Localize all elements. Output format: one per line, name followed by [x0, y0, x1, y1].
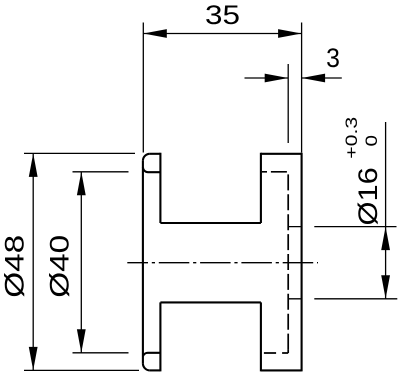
- svg-text:Ø40: Ø40: [45, 235, 75, 298]
- part outline: right flange right face: [301, 153, 303, 372]
- part outline: hub top edge: [160, 222, 261, 224]
- part edge: left flange rim tangent edge top (Ø40) with blend arc: [143, 167, 161, 172]
- part outline: left flange bottom edge: [150, 369, 161, 371]
- arrowhead: 3 left (pointing right): [265, 74, 289, 83]
- hidden hole edge + extension line: Ø16 bottom (gap after part face): [288, 298, 397, 300]
- svg-text:3: 3: [326, 43, 340, 73]
- extension line: Ø48 bottom: [24, 369, 139, 371]
- part outline: left flange left face: [142, 161, 144, 364]
- svg-text:Ø48: Ø48: [0, 235, 30, 298]
- arrowhead: Ø48 top: [29, 153, 38, 177]
- svg-text:+0.3: +0.3: [342, 117, 361, 159]
- arrowhead: 35 right: [278, 29, 302, 38]
- part outline: right flange top edge: [261, 153, 302, 155]
- part outline: left flange inner face lower segment: [159, 302, 161, 371]
- extension line: Ø40 bottom: [73, 352, 129, 354]
- svg-text:0: 0: [362, 135, 381, 147]
- hidden line: Ø40 recess bottom (dashed): [262, 352, 288, 354]
- arrowhead: Ø48 bottom: [29, 347, 38, 371]
- arrowhead: Ø16 bottom: [381, 275, 390, 299]
- extension line: Ø48 top: [24, 152, 135, 154]
- part outline: left flange bottom-left corner arc: [143, 363, 150, 370]
- dimension line: Ø48: [32, 153, 34, 370]
- part outline: hub bottom edge: [160, 301, 261, 303]
- part edge: left flange rim tangent edge bottom (Ø40) with blend arc: [143, 353, 161, 357]
- part outline: right flange inner face upper segment: [260, 153, 262, 223]
- part outline: right flange bottom edge: [261, 369, 302, 371]
- arrowhead: Ø40 bottom: [77, 329, 86, 353]
- part outline: left flange top-left corner arc: [143, 154, 150, 161]
- arrowhead: 35 left: [143, 29, 167, 38]
- part outline: left flange top edge: [150, 153, 161, 155]
- dimension line: 3 left segment: [245, 77, 289, 79]
- part outline: left flange inner face upper segment: [159, 153, 161, 223]
- svg-text:Ø16: Ø16: [353, 167, 383, 225]
- arrowhead: Ø16 top: [381, 227, 390, 251]
- extension line: 35 dim right / 3 dim right (part right face): [301, 23, 303, 153]
- dimension line: Ø16 (extended up for text): [385, 122, 387, 299]
- dimension line: 3 right segment: [302, 77, 342, 79]
- part outline: right flange inner face lower segment: [260, 302, 262, 371]
- arrowhead: Ø40 top: [77, 172, 86, 196]
- hidden line: recess bottom corner stub: [287, 350, 289, 353]
- hidden line: Ø40 recess in right flange (dashed): [262, 172, 288, 353]
- dimension line: 35: [143, 33, 301, 35]
- svg-text:35: 35: [205, 0, 240, 30]
- center line (dash-dot axis): [127, 262, 318, 264]
- arrowhead: 3 right (pointing left): [302, 74, 326, 83]
- extension line: 3 dim left (recess depth): [287, 64, 289, 143]
- hidden hole edge + extension line: Ø16 top (gap after part face): [288, 226, 396, 228]
- extension line: Ø40 top: [73, 171, 129, 173]
- dimension line: Ø40: [80, 172, 82, 353]
- extension line: 35 dim left (part left face): [142, 23, 144, 153]
